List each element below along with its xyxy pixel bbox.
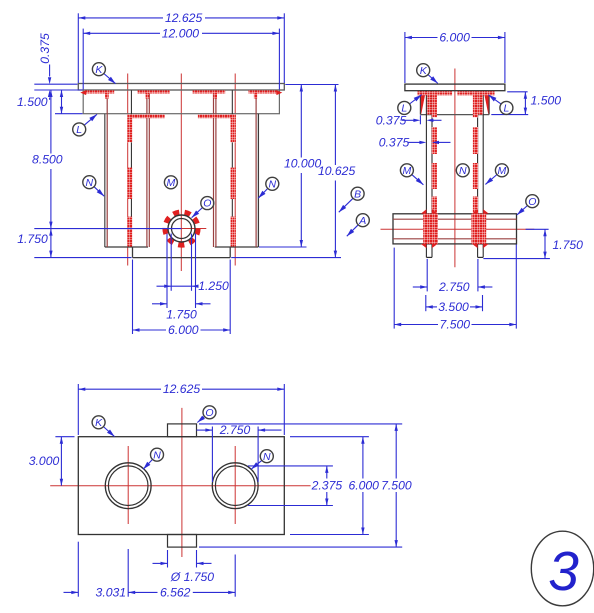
svg-text:Ø 1.750: Ø 1.750 xyxy=(170,570,215,584)
svg-text:10.625: 10.625 xyxy=(318,164,355,178)
svg-text:M: M xyxy=(403,165,412,177)
svg-text:1.750: 1.750 xyxy=(17,232,48,246)
svg-text:O: O xyxy=(528,196,536,208)
svg-text:2.750: 2.750 xyxy=(438,280,470,294)
svg-text:0.375: 0.375 xyxy=(38,33,52,64)
svg-text:N: N xyxy=(269,178,277,190)
svg-text:6.562: 6.562 xyxy=(160,585,191,599)
svg-text:12.000: 12.000 xyxy=(162,27,199,41)
svg-text:M: M xyxy=(167,177,176,189)
svg-text:M: M xyxy=(498,165,507,177)
svg-text:3: 3 xyxy=(548,540,579,602)
svg-text:10.000: 10.000 xyxy=(284,157,321,171)
svg-text:K: K xyxy=(95,64,103,76)
svg-text:1.250: 1.250 xyxy=(198,279,229,293)
svg-text:8.500: 8.500 xyxy=(32,153,63,167)
svg-text:K: K xyxy=(95,417,103,429)
svg-text:3.500: 3.500 xyxy=(438,300,469,314)
svg-text:2.750: 2.750 xyxy=(219,423,251,437)
svg-text:N: N xyxy=(263,451,271,463)
svg-text:6.000: 6.000 xyxy=(168,323,199,337)
svg-text:N: N xyxy=(459,165,467,177)
svg-text:6.000: 6.000 xyxy=(348,478,379,492)
svg-text:O: O xyxy=(205,407,213,419)
svg-text:L: L xyxy=(503,103,509,115)
svg-text:0.375: 0.375 xyxy=(376,114,407,128)
svg-text:1.750: 1.750 xyxy=(552,238,583,252)
svg-text:12.625: 12.625 xyxy=(165,11,202,25)
svg-text:K: K xyxy=(420,65,428,77)
svg-text:N: N xyxy=(86,177,94,189)
svg-text:L: L xyxy=(401,103,407,115)
svg-text:1.750: 1.750 xyxy=(166,308,197,322)
svg-text:0.375: 0.375 xyxy=(379,136,410,150)
svg-text:7.500: 7.500 xyxy=(381,478,412,492)
svg-text:12.625: 12.625 xyxy=(163,382,200,396)
svg-text:3.000: 3.000 xyxy=(29,454,60,468)
svg-text:1.500: 1.500 xyxy=(17,95,48,109)
svg-text:O: O xyxy=(203,198,211,210)
svg-text:A: A xyxy=(358,215,366,227)
svg-text:6.000: 6.000 xyxy=(439,31,470,45)
svg-text:N: N xyxy=(153,449,161,461)
svg-text:B: B xyxy=(354,188,361,200)
svg-text:L: L xyxy=(76,124,82,136)
svg-text:3.031: 3.031 xyxy=(96,585,127,599)
svg-text:2.375: 2.375 xyxy=(311,478,343,492)
svg-text:1.500: 1.500 xyxy=(531,94,562,108)
svg-text:7.500: 7.500 xyxy=(440,318,471,332)
